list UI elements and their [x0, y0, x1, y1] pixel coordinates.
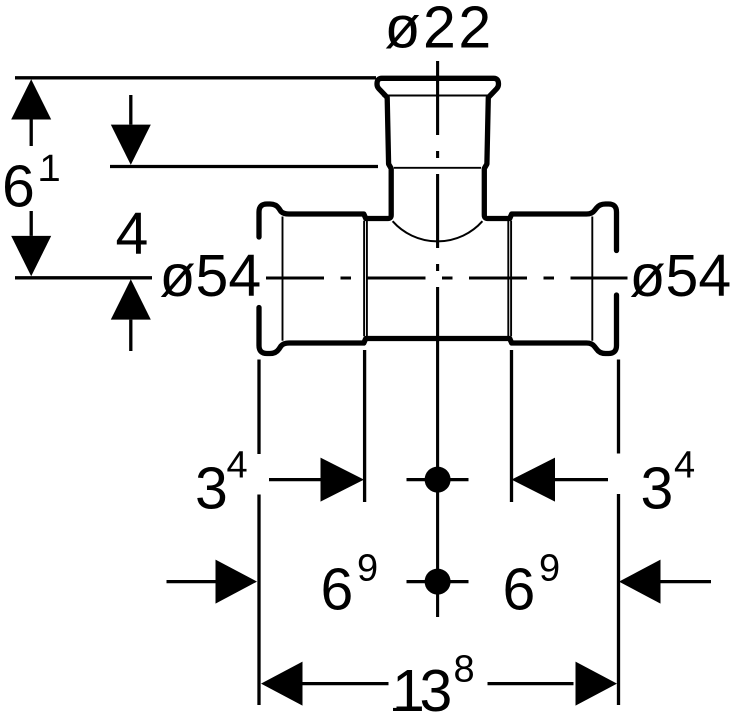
- dim 6-1 down arrow: [11, 211, 51, 276]
- thin inner lines: [283, 96, 593, 341]
- node marker lower: [407, 569, 469, 595]
- dimension ref line A (top): [15, 76, 376, 79]
- dim 13-8 bottom: [261, 649, 617, 712]
- svg-text:ø54: ø54: [160, 243, 262, 309]
- svg-text:4: 4: [116, 201, 149, 267]
- svg-text:ø54: ø54: [630, 243, 732, 309]
- dim 3-4 left: [195, 445, 364, 522]
- right bead inner line: [591, 217, 593, 341]
- svg-text:6: 6: [321, 557, 354, 623]
- extension line right socket depth: [510, 350, 513, 502]
- svg-text:ø22: ø22: [385, 0, 494, 61]
- branch press-zone line: [394, 167, 481, 169]
- left socket depth lines: [363, 221, 365, 336]
- svg-text:1: 1: [40, 148, 61, 190]
- svg-text:4: 4: [674, 445, 695, 487]
- dim 6-1 up arrow: [11, 79, 51, 146]
- left bead inner line: [282, 217, 284, 341]
- svg-text:3: 3: [195, 456, 228, 522]
- svg-text:9: 9: [539, 548, 560, 590]
- label 6 sup 1: [2, 148, 61, 220]
- dim 4 down arrow: [111, 95, 151, 165]
- dim 4 up arrow: [111, 279, 151, 351]
- dimension ref line B: [110, 165, 378, 168]
- extension line left bead: [257, 360, 260, 706]
- branch flange inner line: [382, 95, 488, 97]
- horizontal centerline of body: [266, 276, 628, 279]
- svg-text:4: 4: [227, 445, 248, 487]
- dim 6-9 left: [167, 548, 379, 623]
- right socket depth lines: [507, 221, 509, 336]
- dimension ref line C (ø54 leader): [15, 276, 152, 279]
- svg-text:9: 9: [357, 548, 378, 590]
- dim 3-4 right: [512, 445, 696, 522]
- svg-text:3: 3: [641, 456, 674, 522]
- svg-text:6: 6: [2, 154, 35, 220]
- svg-text:8: 8: [454, 649, 475, 691]
- dim 6-9 right: [503, 548, 712, 623]
- svg-text:3: 3: [420, 658, 453, 712]
- svg-text:6: 6: [503, 557, 536, 623]
- vertical centerline below body: [436, 339, 439, 617]
- extension line right bead: [617, 360, 620, 706]
- extension line left socket depth: [363, 350, 366, 502]
- tee fitting upper outline: [259, 78, 617, 353]
- node marker upper: [407, 467, 469, 493]
- tee fitting lower outline: [259, 295, 617, 354]
- vertical centerline of branch: [436, 61, 439, 337]
- crotch arc: [393, 221, 483, 241]
